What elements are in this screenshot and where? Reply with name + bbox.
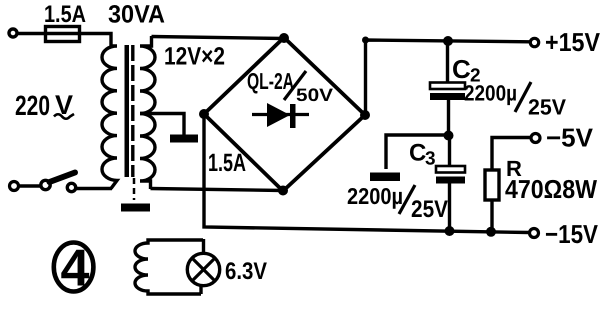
wire: secondary centre tap: [140, 114, 184, 136]
bridge rectifier QL-2A 50V: [204, 38, 365, 192]
transformer core: [125, 45, 135, 200]
diode (bridge symbol): [252, 103, 309, 128]
junction dot: C2 top: [443, 36, 453, 46]
svg-text:6.3V: 6.3V: [225, 258, 267, 285]
wire: AC input top lead: [16, 34, 111, 47]
fuse F1: [46, 27, 80, 42]
wire: switch to primary: [76, 187, 112, 190]
label 2200u/25V (C2): [464, 81, 566, 120]
wire: secondary top to bridge: [152, 37, 285, 39]
svg-text:QL-2A: QL-2A: [247, 68, 294, 94]
svg-text:−5V: −5V: [546, 123, 594, 153]
wire: winding to lamp top: [202, 239, 205, 253]
junction dot: bridge top corner: [279, 33, 289, 43]
svg-text:−15V: −15V: [545, 219, 599, 249]
capacitor C2: [430, 41, 465, 136]
transformer T1 secondary winding: [140, 36, 155, 189]
svg-text:12V×2: 12V×2: [164, 43, 225, 71]
junction dot: C2 bottom / 0V node: [444, 131, 454, 141]
ground: core shield: [121, 204, 150, 212]
junction dot: +15V rail corner: [362, 37, 369, 44]
svg-text:+15V: +15V: [545, 27, 601, 57]
figure number 4: [54, 240, 94, 298]
svg-text:4: 4: [61, 240, 90, 298]
terminal: AC input bottom: [10, 182, 19, 191]
resistor R: [485, 138, 531, 233]
label 2200u/25V (C3): [347, 183, 448, 223]
svg-text:25V: 25V: [411, 196, 448, 223]
label C3: [409, 140, 436, 170]
wire: -15V rail: [204, 114, 529, 233]
junction dot: C3 bottom: [445, 226, 455, 236]
svg-text:50V: 50V: [296, 85, 333, 105]
lamp 6.3V: [187, 253, 219, 294]
wire: secondary bottom to bridge: [151, 189, 284, 191]
junction dot: bridge left corner: [199, 109, 209, 119]
svg-text:2200µ: 2200µ: [347, 183, 403, 209]
svg-text:1.5A: 1.5A: [208, 149, 246, 177]
svg-text:3: 3: [425, 149, 436, 170]
ground: centre tap: [170, 135, 198, 143]
junction dot: R bottom: [486, 227, 496, 237]
svg-text:220: 220: [15, 90, 50, 121]
transformer T1 primary winding: [102, 46, 117, 189]
svg-text:2200µ: 2200µ: [464, 81, 517, 106]
label QL-2A/50V: [247, 68, 333, 105]
switch S1: [41, 173, 76, 192]
svg-text:1.5A: 1.5A: [44, 1, 86, 28]
svg-text:470Ω8W: 470Ω8W: [505, 174, 597, 204]
ground: 0V reference: [370, 173, 400, 182]
label C2: [452, 54, 481, 87]
svg-text:25V: 25V: [528, 95, 566, 120]
label 220V AC: [15, 90, 74, 121]
junction dot: bridge right corner: [360, 110, 370, 120]
capacitor C3: [436, 136, 465, 231]
terminal: AC input top: [9, 29, 17, 37]
wire: input to switch: [19, 184, 40, 187]
wire: bridge + to +15V rail: [366, 40, 531, 115]
junction dot: bridge bottom corner: [278, 186, 288, 196]
heater winding 6.3V: [135, 240, 203, 294]
svg-text:30VA: 30VA: [108, 1, 165, 29]
wire: 0V node to ground: [386, 135, 449, 169]
terminal +15V: [530, 38, 538, 46]
terminal -5V: [531, 134, 540, 143]
terminal -15V: [530, 229, 539, 238]
svg-text:C: C: [409, 140, 426, 167]
svg-text:C: C: [452, 54, 471, 84]
